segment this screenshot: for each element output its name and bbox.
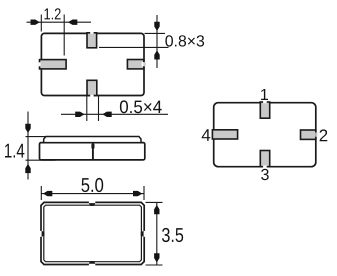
dimension 0.5x4 arrow left (75, 112, 84, 117)
dimension 1.4 arrow bottom (25, 164, 30, 173)
dimension 1.4 arrow top (25, 124, 30, 133)
dimension 5.0 arrow right (133, 191, 142, 196)
top view outline (41, 33, 144, 95)
pin 1 pad notch (263, 101, 267, 103)
dimension 3.5 extension line bottom (146, 264, 163, 266)
dimension 5.0 text (82, 178, 104, 192)
dimension 3.5 line (156, 202, 158, 265)
dimension 1.2 extension line right (63, 15, 65, 56)
pin 3 pad (260, 151, 269, 167)
dimension 5.0 extension line right (143, 186, 145, 200)
dimension 0.8x3 text (165, 35, 204, 46)
pin 1 label (261, 89, 268, 100)
dimension 0.5x4 arrow right (102, 112, 111, 117)
dimension 0.8x3 extension line bottom (99, 46, 169, 48)
dimension 0.8x3 arrow top (154, 22, 159, 31)
top view pad right protrusion (143, 62, 145, 66)
side view seam mark (91, 144, 94, 149)
dimension 0.5x4 extension line left (86, 96, 88, 121)
dimension 1.2 arrow right (68, 20, 77, 25)
dimension 3.5 arrow bottom (154, 253, 159, 262)
pin 2 pad (301, 130, 316, 139)
dimension 5.0 line (41, 193, 144, 195)
top view pad right (127, 60, 143, 69)
pin layout outline (214, 103, 316, 167)
bottom view inner outline (44, 205, 142, 262)
top view pad left notch (39, 62, 41, 66)
pin 4 label (202, 129, 211, 141)
top view pad bottom (87, 80, 97, 95)
pin 1 pad (260, 102, 269, 118)
top view pad bottom notch (90, 95, 93, 97)
pin 3 label (261, 169, 269, 180)
dimension 1.4 extension line top (26, 136, 47, 138)
side view center seam (92, 144, 94, 160)
pin 3 pad notch (263, 166, 267, 168)
pin 2 label (320, 129, 328, 141)
top view pad left (40, 60, 67, 69)
dimension 1.2 extension line left (40, 15, 42, 32)
dimension 0.5x4 extension line right (98, 96, 100, 121)
bottom view notch bottom (89, 263, 95, 265)
dimension 0.5x4 text (120, 100, 162, 113)
bottom view notch top (89, 201, 95, 203)
top view pad right notch (142, 62, 144, 66)
dimension 1.2 line (27, 21, 92, 23)
pin 4 pad (212, 130, 237, 139)
dimension 1.2 arrow left (31, 20, 40, 25)
dimension 1.4 text (5, 144, 24, 158)
bottom view notch left (40, 231, 42, 237)
bottom view outer outline (41, 202, 144, 264)
dimension 5.0 extension line left (40, 186, 42, 200)
side view lid (44, 137, 141, 143)
bottom view notch right (143, 231, 145, 237)
dimension 3.5 extension line top (146, 201, 163, 203)
dimension 3.5 text (162, 228, 183, 242)
side view body (40, 143, 145, 160)
dimension 0.8x3 line (156, 15, 158, 68)
dimension 0.8x3 arrow bottom (154, 50, 159, 59)
top view pad top (87, 33, 97, 48)
dimension 1.2 text (45, 8, 61, 19)
dimension 3.5 arrow top (154, 205, 159, 214)
top view pad top notch (90, 32, 93, 34)
dimension 1.4 extension line bottom (26, 159, 56, 161)
dimension 1.4 line (27, 112, 29, 180)
dimension 0.5x4 line (61, 113, 168, 115)
pin 2 pad protrusion (315, 132, 317, 136)
dimension 0.8x3 extension line top (145, 32, 166, 34)
dimension 5.0 arrow left (43, 191, 52, 196)
